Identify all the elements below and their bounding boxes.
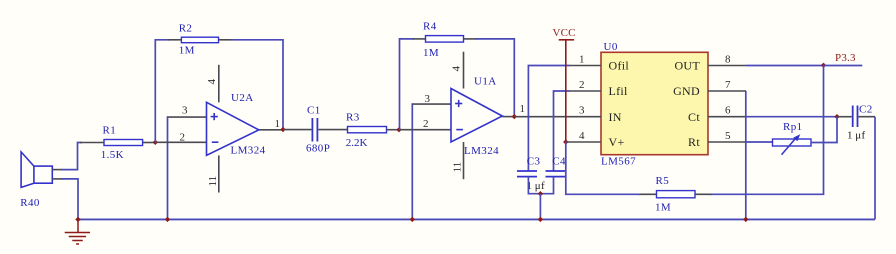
capacitor C1 bbox=[312, 118, 317, 142]
svg-text:LM324: LM324 bbox=[231, 145, 266, 157]
resistor R5 bbox=[657, 191, 696, 198]
svg-text:11: 11 bbox=[207, 176, 219, 187]
microphone/speaker R40 body bbox=[21, 152, 52, 188]
svg-text:C1: C1 bbox=[307, 105, 321, 117]
svg-text:2.2K: 2.2K bbox=[346, 137, 368, 149]
svg-text:3: 3 bbox=[425, 93, 431, 105]
U0 left pin stubs (1,2,3,4) bbox=[566, 66, 601, 143]
svg-text:3: 3 bbox=[182, 105, 188, 117]
junction C3/C4 common node bbox=[538, 191, 543, 196]
svg-text:V+: V+ bbox=[609, 135, 625, 149]
svg-text:4: 4 bbox=[451, 66, 463, 72]
svg-text:1M: 1M bbox=[179, 45, 195, 57]
svg-text:7: 7 bbox=[725, 79, 731, 91]
wire U0 pin8 OUT to P3.3 node bbox=[746, 65, 824, 67]
wire R2 left leg bbox=[155, 40, 169, 143]
svg-text:R4: R4 bbox=[423, 20, 437, 32]
ground symbol bbox=[65, 219, 90, 244]
node R1/R2/U2A pin2 junction bbox=[153, 140, 158, 145]
resistor R4 bbox=[426, 36, 464, 43]
svg-text:P3.3: P3.3 bbox=[835, 52, 856, 64]
svg-text:8: 8 bbox=[725, 54, 731, 66]
svg-text:1: 1 bbox=[579, 53, 585, 65]
svg-text:2: 2 bbox=[579, 79, 585, 91]
node P3.3 junction bbox=[821, 63, 826, 68]
svg-text:LM567: LM567 bbox=[601, 156, 636, 168]
svg-text:1 μf: 1 μf bbox=[527, 180, 545, 192]
wire R4 left leg bbox=[400, 39, 415, 130]
resistor R1 lead wires bbox=[80, 142, 155, 144]
svg-text:6: 6 bbox=[725, 105, 731, 117]
potentiometer Rp1 body bbox=[773, 139, 812, 146]
svg-text:R2: R2 bbox=[179, 22, 193, 34]
capacitor C2 bbox=[853, 106, 858, 128]
svg-text:Ct: Ct bbox=[688, 110, 700, 124]
node U1A output junction bbox=[512, 114, 517, 119]
resistor R2 lead wires bbox=[168, 39, 232, 41]
svg-text:U0: U0 bbox=[604, 41, 618, 53]
svg-text:R1: R1 bbox=[103, 125, 117, 137]
node Ct/Rp1/C2 junction bbox=[834, 114, 839, 119]
svg-text:1M: 1M bbox=[655, 202, 671, 214]
resistor R3 right lead wire bbox=[387, 129, 400, 131]
op-amp U2A triangle bbox=[207, 102, 259, 155]
svg-text:4: 4 bbox=[206, 79, 218, 85]
svg-text:GND: GND bbox=[673, 84, 700, 98]
wire C2 right side down to ground rail bbox=[874, 117, 876, 220]
svg-text:2: 2 bbox=[423, 118, 429, 130]
wire P3.3 node down to R5 right end bbox=[710, 65, 824, 194]
wire R40 top terminal to R1 bbox=[61, 143, 82, 170]
svg-text:C2: C2 bbox=[859, 103, 873, 115]
svg-text:LM324: LM324 bbox=[464, 145, 499, 157]
resistor R1 bbox=[104, 140, 143, 146]
op-amp U2A pin stubs (3,2,1,4,11) bbox=[155, 65, 283, 193]
svg-text:4: 4 bbox=[579, 130, 585, 142]
svg-text:11: 11 bbox=[452, 162, 464, 173]
svg-text:3: 3 bbox=[579, 105, 585, 117]
capacitor C3 bbox=[517, 171, 537, 177]
junction at ground node bbox=[75, 217, 80, 222]
resistor R2 bbox=[181, 37, 218, 43]
svg-text:680P: 680P bbox=[306, 143, 330, 155]
op-amp U1A pin stubs (3,2,1,4,11) bbox=[399, 52, 514, 180]
svg-text:1: 1 bbox=[520, 103, 526, 115]
svg-text:Ofil: Ofil bbox=[609, 59, 630, 73]
junction U1A pin3 wire / ground rail bbox=[410, 217, 415, 222]
svg-text:OUT: OUT bbox=[674, 59, 700, 73]
resistor R4 lead wires bbox=[413, 38, 477, 40]
op-amp U1A triangle bbox=[451, 89, 502, 143]
svg-text:R5: R5 bbox=[656, 175, 670, 187]
svg-text:1M: 1M bbox=[423, 47, 439, 59]
svg-text:Rp1: Rp1 bbox=[783, 121, 803, 133]
U2A plus/minus marks bbox=[211, 113, 219, 142]
wires C3/C4 bottom plates to common node bbox=[528, 177, 553, 194]
svg-text:5: 5 bbox=[725, 130, 731, 142]
svg-text:U2A: U2A bbox=[231, 92, 254, 104]
node U2A output junction bbox=[280, 127, 285, 132]
svg-text:U1A: U1A bbox=[474, 76, 497, 88]
junction pin7 wire / ground rail bbox=[743, 217, 748, 222]
wire U1A pin3 to ground rail bbox=[411, 104, 414, 219]
svg-text:VCC: VCC bbox=[553, 27, 576, 39]
node V+ junction bbox=[563, 139, 568, 144]
wire R4 right leg to U1A output bbox=[476, 39, 514, 117]
wire VCC/V+ node down and right to R5 left end bbox=[566, 142, 640, 194]
svg-text:R3: R3 bbox=[346, 112, 360, 124]
Rp1 wiper arrow bbox=[782, 134, 801, 154]
wire R40 bottom terminal to ground node bbox=[61, 179, 78, 220]
wire C3/C4 node to ground rail bbox=[539, 194, 541, 220]
capacitor C1 lead wires bbox=[283, 129, 348, 131]
capacitor C2 lead wires bbox=[837, 116, 875, 118]
svg-text:IN: IN bbox=[609, 110, 622, 124]
svg-text:Lfil: Lfil bbox=[609, 84, 629, 98]
wire bottom ground rail bbox=[77, 218, 875, 220]
capacitor C4 bbox=[546, 171, 566, 177]
svg-text:1.5K: 1.5K bbox=[101, 149, 124, 161]
junction C3/C4 wire / ground rail bbox=[538, 217, 543, 222]
wire U0 pin6 Ct to C2 node bbox=[746, 116, 837, 118]
wire R2 right leg to U2A output bbox=[231, 40, 283, 130]
wire U0 pin1 Ofil down to C3 bbox=[528, 66, 570, 172]
resistor R5 lead wires bbox=[638, 193, 712, 195]
node R3/R4/U1A pin2 junction bbox=[396, 127, 401, 132]
svg-text:C4: C4 bbox=[552, 155, 566, 167]
wire U1A output to U0 pin3 IN bbox=[514, 116, 570, 118]
svg-text:R40: R40 bbox=[20, 197, 40, 209]
U1A plus/minus marks bbox=[455, 100, 463, 130]
U0 right pin stubs (8,7,6,5) bbox=[708, 66, 746, 143]
svg-text:C3: C3 bbox=[527, 155, 541, 167]
resistor R3 bbox=[348, 127, 387, 133]
wire U0 pin7 GND to ground rail bbox=[745, 91, 747, 219]
R40 pin stubs bbox=[52, 170, 62, 179]
svg-text:2: 2 bbox=[180, 131, 186, 143]
svg-text:Rt: Rt bbox=[688, 135, 700, 149]
junction pin3 wire / ground rail bbox=[165, 217, 170, 222]
wire Rp1 right end up to Ct node bbox=[811, 117, 837, 143]
IC U0 LM567 body bbox=[601, 52, 708, 154]
svg-text:1: 1 bbox=[275, 118, 281, 130]
svg-text:1 μf: 1 μf bbox=[847, 130, 865, 142]
VCC power symbol and stem to V+ bbox=[559, 40, 574, 142]
wire U0 pin5 Rt to Rp1 bbox=[746, 141, 773, 143]
wire U0 pin2 Lfil down to C4 bbox=[554, 91, 571, 171]
wire U2A pin3 to ground rail bbox=[167, 117, 170, 219]
wire stub under P3.3 label bbox=[824, 65, 863, 67]
